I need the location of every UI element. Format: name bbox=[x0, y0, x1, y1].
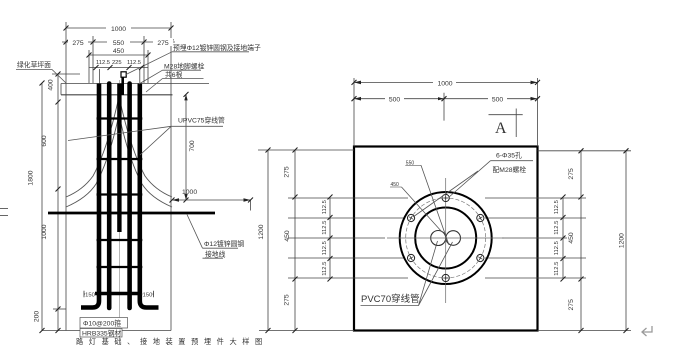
svg-text:450: 450 bbox=[568, 232, 575, 244]
svg-text:112.5: 112.5 bbox=[322, 200, 328, 214]
svg-text:112.5: 112.5 bbox=[127, 60, 141, 66]
svg-text:112.5: 112.5 bbox=[554, 241, 560, 255]
svg-text:绿化草坪面: 绿化草坪面 bbox=[17, 60, 51, 69]
svg-text:275: 275 bbox=[568, 168, 575, 180]
svg-text:450: 450 bbox=[113, 48, 125, 55]
svg-text:A: A bbox=[495, 120, 507, 137]
svg-text:150: 150 bbox=[85, 292, 95, 298]
svg-text:UPVC75穿线管: UPVC75穿线管 bbox=[178, 116, 225, 125]
svg-text:112.5: 112.5 bbox=[554, 221, 560, 235]
svg-text:275: 275 bbox=[284, 166, 291, 178]
svg-text:275: 275 bbox=[157, 40, 169, 47]
svg-text:150: 150 bbox=[143, 292, 153, 298]
svg-text:200: 200 bbox=[34, 311, 41, 323]
svg-text:接地线: 接地线 bbox=[205, 250, 226, 259]
svg-text:450: 450 bbox=[284, 230, 291, 242]
svg-text:112.5: 112.5 bbox=[96, 60, 110, 66]
svg-text:配M28螺栓: 配M28螺栓 bbox=[493, 165, 527, 174]
svg-text:共6根: 共6根 bbox=[165, 70, 183, 79]
svg-text:700: 700 bbox=[189, 140, 196, 152]
svg-text:预埋Φ12镀锌圆钢及接地端子: 预埋Φ12镀锌圆钢及接地端子 bbox=[173, 43, 261, 52]
svg-text:1000: 1000 bbox=[437, 81, 452, 88]
svg-text:路灯基础、接地装置预埋件大样图: 路灯基础、接地装置预埋件大样图 bbox=[76, 337, 268, 346]
svg-text:112.5: 112.5 bbox=[322, 221, 328, 235]
svg-text:1000: 1000 bbox=[182, 189, 197, 196]
svg-text:600: 600 bbox=[41, 135, 48, 147]
svg-text:1800: 1800 bbox=[28, 170, 35, 185]
svg-text:1000: 1000 bbox=[41, 224, 48, 239]
svg-text:PVC70穿线管: PVC70穿线管 bbox=[361, 293, 420, 305]
svg-text:500: 500 bbox=[389, 97, 401, 104]
svg-text:112.5: 112.5 bbox=[322, 241, 328, 255]
svg-text:500: 500 bbox=[492, 97, 504, 104]
svg-text:1000: 1000 bbox=[111, 26, 126, 33]
svg-text:275: 275 bbox=[284, 294, 291, 306]
svg-text:1200: 1200 bbox=[619, 233, 626, 248]
svg-text:M28地脚螺栓: M28地脚螺栓 bbox=[164, 62, 205, 71]
svg-text:275: 275 bbox=[72, 40, 84, 47]
svg-text:400: 400 bbox=[48, 79, 55, 91]
svg-text:1200: 1200 bbox=[258, 224, 265, 239]
svg-text:112.5: 112.5 bbox=[554, 200, 560, 214]
svg-text:6-Φ35孔: 6-Φ35孔 bbox=[496, 152, 522, 160]
svg-text:550: 550 bbox=[113, 40, 125, 47]
svg-text:Φ12镀锌圆钢: Φ12镀锌圆钢 bbox=[204, 239, 244, 248]
svg-text:112.5: 112.5 bbox=[322, 262, 328, 276]
svg-text:225: 225 bbox=[112, 60, 122, 66]
svg-text:275: 275 bbox=[568, 299, 575, 311]
svg-text:112.5: 112.5 bbox=[554, 262, 560, 276]
svg-text:Φ10@200箍: Φ10@200箍 bbox=[83, 319, 121, 328]
